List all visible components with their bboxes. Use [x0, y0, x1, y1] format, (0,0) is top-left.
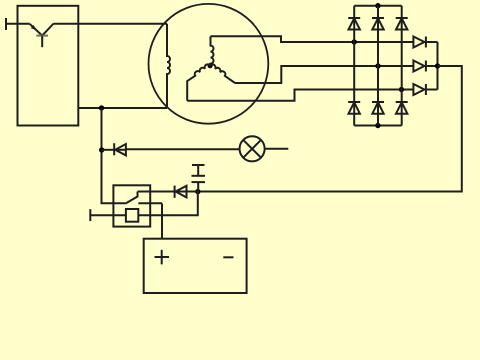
- transistor Q1: [30, 24, 54, 48]
- wire: diode trio bus: [437, 42, 439, 90]
- warning lamp LA1: [240, 136, 265, 161]
- terminal T1 (regulator field input): [5, 18, 7, 30]
- diode D7 (trio phase U): [413, 37, 437, 48]
- wire: transistor collector to field winding: [54, 23, 167, 25]
- diode D10 (field discharge): [175, 186, 198, 198]
- cut-out relay box: [113, 185, 150, 226]
- battery + symbol: [155, 250, 170, 265]
- diode D8 (trio phase V): [413, 61, 437, 72]
- node: trio output: [435, 63, 440, 68]
- diode D6: [396, 102, 408, 114]
- stator winding phase W: [187, 64, 210, 100]
- battery − symbol: [223, 256, 233, 258]
- wire: lamp to ignition switch: [265, 148, 289, 150]
- relay contact arm: [125, 192, 137, 204]
- wire: field winding bottom to regulator: [78, 107, 167, 109]
- voltage regulator box: [18, 6, 79, 126]
- node: positive rail: [375, 3, 380, 8]
- stator star point: [208, 63, 213, 68]
- wire: fixed contact to battery +: [161, 203, 163, 238]
- wire: field junction down to relay: [102, 108, 126, 203]
- wire: phase V to rectifier: [235, 66, 413, 83]
- diode D9 (trio phase W): [413, 84, 437, 95]
- node: lamp/field junction: [99, 147, 104, 152]
- stator winding phase U: [210, 36, 213, 65]
- wire: diode D11 to lamp: [126, 148, 240, 150]
- capacitor C1: [192, 165, 206, 192]
- wire: rectifier leg 2: [377, 6, 379, 126]
- field winding L1: [167, 24, 170, 108]
- node: relay/capacitor junction: [195, 189, 200, 194]
- rectifier positive rail: [354, 5, 402, 7]
- node: field return junction: [99, 105, 104, 110]
- diode D5: [372, 102, 384, 114]
- relay fixed contact: [138, 202, 162, 204]
- wire: phase W to rectifier: [187, 90, 413, 101]
- wire: coil to junction: [138, 192, 198, 216]
- node: phase W at rectifier: [399, 87, 404, 92]
- node: phase V at rectifier: [375, 63, 380, 68]
- wire: junction to diode D11: [102, 149, 115, 151]
- wire: terminal T1 to transistor emitter: [6, 23, 30, 25]
- wire: rectifier leg 1: [353, 6, 355, 126]
- alternator body: [149, 4, 269, 124]
- relay coil K1: [126, 209, 138, 222]
- battery BT1: [144, 239, 247, 293]
- node: phase U at rectifier: [352, 39, 357, 44]
- diode D1: [348, 18, 360, 30]
- stator winding phase V: [210, 64, 235, 83]
- wire: trio output to relay/capacitor junction: [198, 66, 462, 192]
- diode D11 (lamp feed): [114, 143, 126, 155]
- wire: relay arm to diode D10: [138, 191, 175, 193]
- diode D4: [348, 102, 360, 114]
- wire: coil terminal to coil: [90, 214, 126, 216]
- diode D2: [372, 18, 384, 30]
- rectifier negative rail: [354, 125, 402, 127]
- wire: phase U to rectifier: [211, 36, 414, 42]
- diode D3: [396, 18, 408, 30]
- terminal T2 (relay coil): [89, 209, 91, 221]
- node: negative rail: [375, 123, 380, 128]
- wire: rectifier leg 3: [401, 6, 403, 126]
